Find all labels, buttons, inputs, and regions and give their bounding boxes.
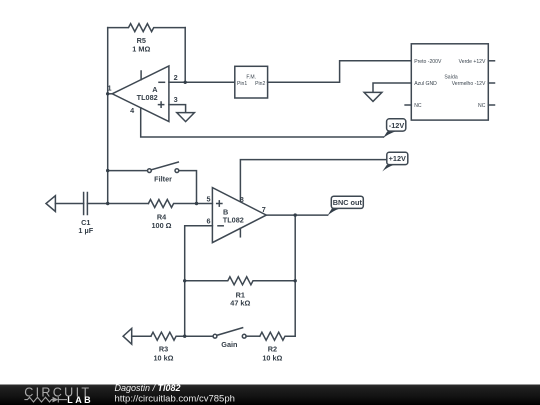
net flag BNC out tail — [327, 209, 340, 216]
wire: Azul GND to ground — [373, 83, 411, 92]
resistor R4 — [148, 200, 196, 208]
wire: gain switch to R2 — [246, 335, 260, 337]
svg-text:Azul GND: Azul GND — [414, 81, 437, 87]
op-amp U1A TL082 triangle — [112, 66, 169, 122]
op-amp B non-inverting plus sign — [217, 201, 222, 206]
wire: C1 to R4 — [87, 203, 148, 205]
svg-text:10 kΩ: 10 kΩ — [153, 354, 173, 363]
op-amp A V+ tick — [140, 71, 142, 80]
svg-text:F.M.: F.M. — [246, 74, 256, 80]
wire: pin 6 input down to R1/R3 node — [185, 226, 213, 336]
pin stub: right NC — [488, 104, 494, 106]
junction: C1 input node — [106, 202, 109, 205]
switch SW2 Gain lever — [217, 328, 243, 336]
wire: op-amp B pin 8 to +12V — [240, 160, 386, 202]
svg-text:1: 1 — [107, 84, 111, 93]
wire: filter branch from input node — [108, 170, 148, 172]
junction: R1 left — [183, 279, 186, 282]
wire: pin 3 to ground — [169, 105, 186, 113]
svg-text:R2: R2 — [268, 345, 277, 354]
net flag -12V body — [387, 119, 406, 131]
wire: F.M. Pin2 to HV module Preto pin — [268, 61, 412, 83]
wire: input net left vertical (node IN) — [107, 28, 109, 204]
wire: output node down to R1/R2 — [294, 215, 296, 336]
svg-text:NC: NC — [414, 103, 422, 109]
net flag -12V tail — [383, 131, 396, 138]
svg-text:Filter: Filter — [154, 174, 172, 183]
svg-text:Dagostin / Tl082: Dagostin / Tl082 — [115, 383, 181, 393]
resistor R2 — [260, 332, 295, 340]
svg-text:BNC out: BNC out — [333, 198, 363, 207]
svg-text:5: 5 — [206, 194, 210, 203]
net flag +12V tail — [382, 165, 394, 172]
svg-text:Gain: Gain — [221, 340, 237, 349]
wire: R5 right lead down to pin 2 net — [184, 28, 186, 83]
op-amp A inverting input minus sign — [159, 81, 165, 83]
net flag BNC out body — [331, 196, 363, 208]
junction: R4/pin5 node — [195, 202, 198, 205]
svg-text:2: 2 — [174, 73, 178, 82]
svg-text:1 MΩ: 1 MΩ — [132, 44, 150, 53]
svg-text:TL082: TL082 — [223, 216, 244, 225]
junction: op-amp A output node — [106, 92, 109, 95]
svg-text:7: 7 — [262, 205, 266, 214]
wire: op-amp A output stub to node — [108, 93, 113, 95]
wire: filter switch to R4 output node — [179, 171, 197, 204]
wire: pin 2 to F.M. box — [169, 81, 235, 83]
svg-text:10 kΩ: 10 kΩ — [262, 354, 282, 363]
wire: probe to R3 — [132, 335, 151, 337]
net flag +12V body — [387, 152, 408, 164]
svg-text:R3: R3 — [159, 345, 168, 354]
resistor R5 — [108, 24, 186, 32]
svg-text:Pin2: Pin2 — [255, 81, 265, 87]
switch SW2 Gain contacts — [213, 334, 217, 338]
svg-text:TL082: TL082 — [137, 93, 158, 102]
resistor R1 — [185, 277, 296, 285]
wire: pin 7 output to BNC out — [266, 214, 327, 216]
svg-text:8: 8 — [240, 195, 244, 204]
pin stub: Vermelho -12V — [488, 82, 494, 84]
svg-text:Saída: Saída — [444, 75, 457, 81]
pin stub: left NC — [405, 104, 411, 106]
op-amp B inverting minus sign — [218, 225, 223, 227]
ground symbol (op-amp A pin 3) — [177, 113, 195, 122]
op-amp A non-inverting input plus sign — [159, 102, 164, 107]
svg-text:NC: NC — [478, 103, 486, 109]
HV module box — [411, 44, 488, 120]
svg-text:Vermelho -12V: Vermelho -12V — [452, 81, 486, 87]
svg-text:-12V: -12V — [389, 121, 405, 130]
op-amp U1B TL082 triangle — [212, 188, 266, 243]
junction: R5/pin2 node — [184, 81, 187, 84]
wire: probe to C1 — [55, 203, 83, 205]
input probe arrow (left input) — [46, 196, 55, 212]
svg-text:LAB: LAB — [67, 395, 93, 405]
CircuitLab logo resistor-diode glyph — [24, 397, 67, 403]
op-amp B V- tick — [239, 228, 241, 237]
svg-text:47 kΩ: 47 kΩ — [230, 299, 250, 308]
switch SW1 Filter contacts — [148, 169, 152, 173]
svg-text:100 Ω: 100 Ω — [151, 221, 171, 230]
svg-text:Verde +12V: Verde +12V — [459, 59, 486, 65]
junction: R3/pin6 node — [183, 335, 186, 338]
switch SW1 Filter lever — [151, 162, 178, 170]
F.M. connector box J1 — [235, 66, 268, 98]
resistor R3 — [151, 332, 213, 340]
svg-text:http://circuitlab.com/cv785ph: http://circuitlab.com/cv785ph — [115, 394, 235, 405]
wire: pin 4 to -12V net — [141, 108, 384, 137]
svg-text:+12V: +12V — [389, 154, 406, 163]
svg-text:1 µF: 1 µF — [78, 226, 93, 235]
wire: pin 5 input — [197, 203, 213, 205]
ground probe arrow (bottom left) — [123, 328, 132, 344]
svg-text:Preto -200V: Preto -200V — [414, 59, 442, 65]
junction: pin7 output node — [294, 213, 297, 216]
svg-text:3: 3 — [174, 95, 178, 104]
junction: R1 right — [294, 279, 297, 282]
svg-text:6: 6 — [206, 216, 210, 225]
svg-text:Pin1: Pin1 — [237, 81, 247, 87]
junction: filter branch top — [106, 169, 109, 172]
capacitor C1 plates — [84, 193, 88, 215]
pin stub: Verde +12V — [488, 60, 494, 62]
ground symbol (Azul GND) — [364, 92, 382, 101]
